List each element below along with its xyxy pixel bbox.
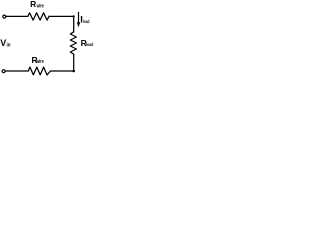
svg-text:wire: wire [36, 59, 44, 65]
svg-text:V: V [0, 38, 6, 48]
svg-text:load: load [86, 42, 94, 47]
svg-text:R: R [30, 0, 36, 9]
svg-text:in: in [7, 42, 11, 48]
svg-text:wire: wire [36, 4, 44, 10]
svg-text:load: load [83, 19, 90, 24]
